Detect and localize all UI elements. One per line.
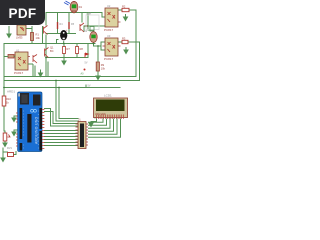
header pin label dots — [23, 111, 25, 148]
wire stub x40 — [40, 70, 42, 73]
header strip left lower — [20, 143, 23, 151]
wire top bus — [46, 12, 102, 14]
wire Q2 drop — [47, 62, 49, 77]
svg-text:10k: 10k — [101, 67, 106, 71]
svg-text:ARDUINO UNO: ARDUINO UNO — [35, 117, 39, 144]
LED D1 top — [64, 1, 83, 13]
ground arduino left B — [12, 132, 16, 136]
ground mid y58 — [63, 58, 65, 62]
header strip left upper — [20, 108, 23, 139]
wire pot to arduino — [14, 152, 17, 155]
junction at rail B drop — [55, 80, 57, 82]
svg-text:R2: R2 — [122, 5, 126, 9]
power flag 5V — [84, 53, 86, 58]
IC3 temperature sensor top-left — [16, 25, 26, 40]
svg-text:+: + — [66, 29, 68, 32]
ground below pot — [3, 143, 7, 147]
ground right of IC1 — [125, 14, 127, 17]
wire R-d legs — [63, 44, 65, 58]
wire lower bus y58 — [46, 57, 88, 59]
resistor R-g — [122, 8, 129, 11]
wire arduino pin 1 staircase — [45, 109, 79, 127]
svg-text:R10: R10 — [6, 97, 11, 101]
resistor R-e — [76, 47, 84, 54]
wire Q-a drop — [45, 13, 47, 26]
resistor on left rail — [2, 96, 11, 106]
thermistor bottom-left — [8, 153, 14, 157]
svg-text:U2: U2 — [107, 4, 111, 8]
wire connector to LCD d5 — [89, 119, 114, 131]
svg-text:J1: J1 — [78, 118, 81, 122]
svg-text:A0: A0 — [81, 73, 85, 76]
junction at LED D1 / top bus — [73, 12, 75, 14]
svg-text:U3: U3 — [107, 34, 111, 38]
wire IC1 out to resistor — [118, 9, 136, 11]
svg-text:R5: R5 — [71, 23, 75, 26]
wire IC2 input link — [94, 42, 106, 50]
svg-text:BC: BC — [50, 49, 54, 53]
LDR box — [86, 15, 99, 30]
ground bottom left — [2, 152, 4, 158]
ground right of IC2 — [125, 47, 127, 50]
wire IC1 input link — [84, 13, 105, 32]
wire connector to LCD d7 — [89, 119, 121, 137]
wire left small comp link — [3, 148, 8, 152]
svg-text:Q1: Q1 — [50, 46, 54, 50]
ground near LCD vss — [89, 123, 93, 127]
wire arduino lower pins — [45, 131, 79, 146]
svg-text:5V: 5V — [88, 85, 91, 88]
wire arduino left stub B — [14, 130, 18, 132]
right pin hatch — [42, 110, 44, 149]
wire R-e legs — [76, 44, 78, 58]
wire Q-a emitter — [45, 35, 47, 77]
wire rail B y80 — [4, 80, 140, 82]
resistor R-f — [96, 62, 105, 71]
Arduino UNO board — [16, 92, 44, 152]
ground symbols (green arrows) — [1, 14, 128, 162]
transistor Q1 — [45, 46, 55, 58]
wire Q-b drop — [81, 13, 83, 23]
wire x42 drop — [42, 27, 44, 44]
wire power drop x56 — [56, 81, 78, 122]
wire R-f vertical legs — [97, 46, 99, 74]
wire R1 legs — [26, 27, 32, 44]
junction at LED D2 / mid bus — [93, 43, 95, 45]
wire rail A y76 — [4, 76, 136, 78]
PDF badge — [0, 0, 45, 25]
ground arduino left A — [12, 118, 16, 122]
junction at rail C drop — [58, 87, 60, 89]
wire left rail — [4, 44, 5, 144]
junction at left rail / rail C — [3, 87, 5, 89]
potentiometer RV1 — [3, 133, 12, 150]
wire right rail x133 — [135, 10, 137, 77]
wire sounder bottom route — [57, 40, 64, 44]
net stub on rail C — [85, 85, 87, 88]
left pin hatch — [16, 113, 18, 146]
wire R-b drop — [68, 13, 70, 34]
svg-text:ARD1: ARD1 — [7, 90, 15, 94]
ground below R-f — [97, 74, 99, 76]
resistor R-b — [69, 22, 75, 29]
logo mark — [31, 109, 34, 112]
transistor Q2 — [33, 55, 37, 64]
junction at R9 top — [97, 45, 99, 47]
svg-text:RV1: RV1 — [7, 146, 13, 150]
mcu chip — [27, 114, 31, 143]
wire IC2 out to resistor — [118, 41, 140, 43]
header strip right — [39, 108, 42, 129]
svg-text:R9: R9 — [101, 63, 105, 67]
wire connector to LCD rs — [89, 119, 104, 122]
power jack — [33, 95, 41, 106]
svg-text:R7: R7 — [67, 47, 71, 51]
wire arduino left stub A — [14, 116, 18, 118]
transistor Q-b top — [80, 23, 89, 32]
wire connector to LCD e — [89, 119, 107, 125]
svg-text:PC817: PC817 — [104, 57, 114, 61]
ground stub x40 — [39, 73, 43, 77]
resistor R-h — [122, 40, 128, 43]
sounder BUZ1 — [60, 29, 68, 40]
ground at IC3 left — [8, 26, 10, 34]
svg-text:LM35: LM35 — [16, 36, 23, 40]
svg-text:10k: 10k — [36, 36, 41, 40]
wire R-a drop — [57, 13, 59, 34]
wire rail C y87 — [4, 87, 120, 89]
svg-text:5V: 5V — [85, 62, 88, 65]
svg-text:PC817: PC817 — [14, 71, 24, 75]
wire connector to LCD d6 — [89, 119, 118, 134]
svg-text:D1: D1 — [79, 6, 83, 9]
junction at sounder / mid bus — [63, 43, 65, 45]
wire right rail x136 — [139, 42, 141, 81]
svg-text:D2: D2 — [84, 30, 88, 33]
svg-text:R8: R8 — [80, 47, 84, 51]
svg-text:LCD1: LCD1 — [104, 94, 112, 98]
svg-text:R3: R3 — [122, 37, 126, 41]
wire power drop x59 — [59, 88, 78, 119]
wire right riser x88 — [88, 13, 94, 58]
svg-text:R1: R1 — [36, 33, 40, 37]
net flag on rail A — [84, 69, 86, 71]
reset button — [18, 93, 20, 96]
junction at lower bus left — [45, 57, 47, 59]
connector J1 — [76, 118, 89, 149]
resistor R-a — [58, 22, 64, 29]
wire mid horizontal y33.5 — [46, 33, 76, 35]
svg-text:1k: 1k — [6, 101, 9, 105]
resistor R1 — [31, 33, 41, 41]
transistor Q-a top — [44, 26, 48, 35]
LCD module LM016L — [94, 98, 128, 119]
optocoupler U2 — [104, 4, 121, 32]
IC4 optocoupler U1 — [4, 49, 33, 77]
LED D2 green — [84, 30, 97, 42]
wire Q1 emitter drop — [34, 66, 36, 77]
svg-text:PC817: PC817 — [104, 28, 114, 32]
wire arduino pin 2 staircase — [45, 112, 79, 124]
usb connector — [20, 93, 29, 105]
wire connector to LCD d4 — [89, 119, 111, 128]
svg-text:LDR: LDR — [87, 13, 92, 16]
resistor R-d — [63, 47, 71, 54]
svg-text:R4: R4 — [60, 23, 64, 26]
wire LCD vss ground link — [91, 116, 97, 124]
optocoupler U3 — [103, 34, 121, 61]
wire mid bus y44 — [4, 43, 95, 45]
svg-text:Q3: Q3 — [85, 24, 89, 28]
